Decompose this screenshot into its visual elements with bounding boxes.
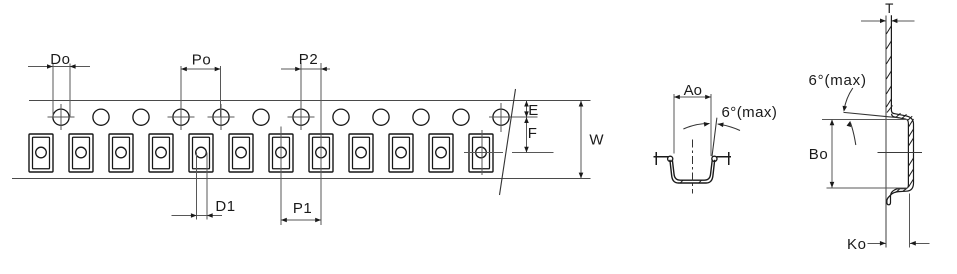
dimension P2	[281, 63, 330, 225]
svg-text:T: T	[885, 1, 893, 16]
Bo bottom extension line	[827, 187, 908, 189]
pocket 4	[149, 134, 173, 172]
svg-text:6°(max): 6°(max)	[722, 104, 778, 121]
pocket 2	[69, 134, 93, 172]
6 degree arc right (middle)	[718, 124, 740, 131]
dimension Ao	[674, 94, 711, 156]
dimension Do	[28, 64, 90, 118]
svg-text:P1: P1	[293, 200, 313, 217]
sprocket hole 11	[453, 109, 469, 125]
sprocket hole 1	[53, 109, 69, 125]
pocket centre reference line right of break	[512, 152, 554, 154]
pocket bottom hatch	[680, 180, 702, 183]
svg-text:F: F	[528, 125, 537, 142]
sprocket hole 3	[133, 109, 149, 125]
svg-text:Po: Po	[192, 51, 212, 68]
svg-text:6°(max): 6°(max)	[809, 72, 867, 89]
pocket outer wall	[670, 160, 715, 183]
svg-text:D1: D1	[215, 198, 235, 215]
pocket 11	[429, 134, 453, 172]
pocket 7	[269, 134, 293, 172]
pocket lip left	[668, 156, 673, 161]
pocket 12	[469, 134, 493, 172]
svg-text:W: W	[589, 131, 604, 148]
diagonal break line	[500, 89, 516, 195]
pocket 9	[349, 134, 373, 172]
6deg leader arc upper (right view)	[844, 88, 853, 110]
dimension Po	[181, 66, 221, 117]
svg-text:P2: P2	[299, 51, 319, 68]
tape wall left line (full height)	[885, 15, 887, 247]
sprocket hole 12	[493, 109, 509, 125]
sprocket hole 5	[213, 109, 229, 125]
sprocket hole 4	[173, 109, 189, 125]
pocket inner wall	[672, 160, 712, 181]
crosshair hole 4	[168, 104, 195, 130]
sprocket hole 7	[293, 109, 309, 125]
sprocket hole 2	[93, 109, 109, 125]
pocket section flange line left	[654, 156, 669, 158]
crosshair hole 1	[48, 104, 75, 130]
svg-text:Do: Do	[50, 51, 70, 68]
crosshair hole 7	[288, 104, 315, 130]
dimension T	[861, 20, 914, 22]
pocket 8	[309, 134, 333, 172]
flange end tick left	[655, 152, 657, 165]
crosshair hole 12 (extended arm)	[489, 103, 538, 132]
crosshair hole 5	[208, 104, 235, 130]
right wall hatching	[896, 119, 914, 193]
Bo top extension line	[822, 119, 908, 121]
pocket 10	[389, 134, 413, 172]
pocket 1	[29, 134, 53, 172]
bend hatching	[887, 106, 912, 121]
6 degree wall line (right view)	[844, 112, 901, 118]
pocket 3	[109, 134, 133, 172]
svg-text:Ao: Ao	[684, 82, 702, 99]
6deg arc lower (right view)	[850, 123, 855, 146]
6 degree wall line (middle)	[712, 118, 717, 157]
dimension E	[526, 101, 528, 153]
pocket centre line (right view)	[877, 151, 922, 153]
flange end tick right	[728, 152, 730, 165]
sprocket hole 6	[253, 109, 269, 125]
sprocket hole 9	[373, 109, 389, 125]
dimension W	[580, 101, 582, 179]
pocket lip right	[712, 156, 717, 161]
dimension D1	[171, 153, 222, 220]
pocket 6	[229, 134, 253, 172]
pocket centerline (dash-dot)	[691, 140, 693, 194]
dimension Ko	[868, 193, 930, 247]
dimension Bo	[831, 120, 833, 188]
sprocket hole 8	[333, 109, 349, 125]
tape bottom edge	[12, 177, 591, 179]
svg-text:E: E	[528, 102, 538, 119]
wall hatching top	[886, 26, 891, 107]
sprocket hole 10	[413, 109, 429, 125]
pocket section flange line right	[716, 156, 731, 158]
tape top edge	[29, 100, 591, 102]
pocket 5	[189, 134, 213, 172]
dimension F	[524, 117, 529, 123]
tape sheet profile (right view)	[887, 15, 914, 205]
crosshair pocket 12	[464, 130, 503, 175]
svg-text:Bo: Bo	[809, 146, 829, 163]
svg-text:Ko: Ko	[847, 236, 867, 253]
dimension P1	[281, 127, 321, 226]
6 degree arc left (middle)	[683, 123, 709, 129]
